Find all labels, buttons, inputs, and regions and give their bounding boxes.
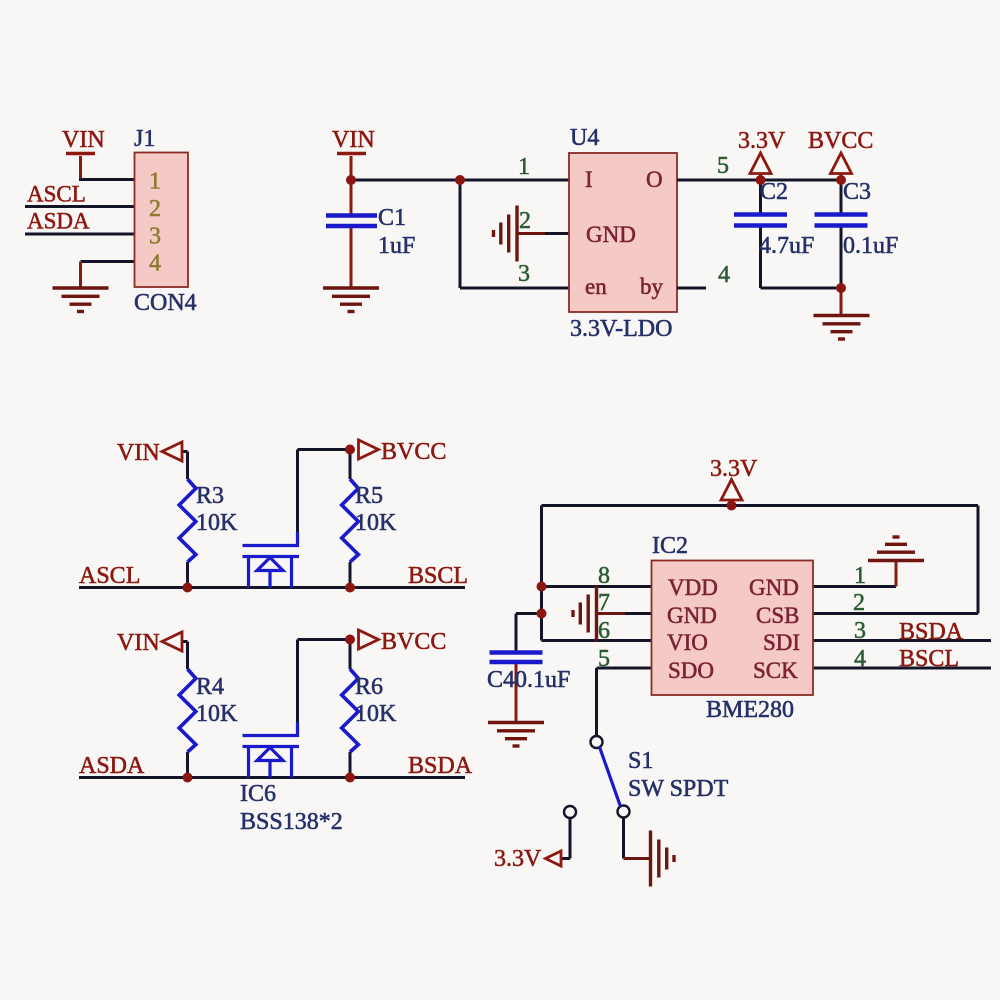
svg-text:VIN: VIN: [117, 630, 160, 656]
svg-text:7: 7: [598, 590, 610, 616]
svg-text:VIN: VIN: [62, 127, 105, 153]
svg-text:3.3V-LDO: 3.3V-LDO: [570, 316, 672, 342]
svg-text:8: 8: [598, 563, 610, 589]
svg-text:BSCL: BSCL: [408, 563, 468, 589]
svg-text:SDO: SDO: [668, 658, 714, 683]
svg-text:R6: R6: [355, 674, 383, 700]
svg-text:R3: R3: [196, 483, 224, 509]
svg-text:ASCL: ASCL: [27, 182, 86, 207]
svg-text:BVCC: BVCC: [381, 439, 446, 465]
svg-text:3.3V: 3.3V: [738, 128, 786, 154]
svg-text:CON4: CON4: [134, 290, 197, 316]
svg-text:0.1uF: 0.1uF: [843, 233, 898, 259]
svg-text:3.3V: 3.3V: [710, 456, 758, 482]
svg-text:IC2: IC2: [652, 533, 688, 559]
svg-text:C3: C3: [843, 179, 871, 205]
svg-text:3.3V: 3.3V: [494, 846, 542, 872]
svg-text:3: 3: [854, 618, 866, 644]
svg-text:BSS138*2: BSS138*2: [240, 809, 343, 835]
svg-text:1uF: 1uF: [378, 233, 415, 259]
svg-text:3: 3: [149, 224, 161, 250]
svg-text:by: by: [640, 274, 664, 299]
svg-text:2: 2: [519, 208, 531, 234]
svg-text:5: 5: [717, 153, 729, 179]
svg-text:SW SPDT: SW SPDT: [628, 776, 729, 802]
svg-text:10K: 10K: [355, 510, 397, 536]
svg-text:3: 3: [518, 261, 530, 287]
svg-text:5: 5: [598, 646, 610, 672]
svg-text:I: I: [585, 167, 593, 192]
svg-text:2: 2: [149, 196, 161, 222]
svg-text:IC6: IC6: [240, 781, 276, 807]
svg-text:ASDA: ASDA: [79, 753, 145, 779]
svg-text:2: 2: [853, 590, 865, 616]
svg-text:4: 4: [718, 262, 730, 288]
svg-text:C40.1uF: C40.1uF: [487, 667, 570, 693]
svg-text:O: O: [646, 167, 663, 192]
svg-text:BME280: BME280: [706, 697, 794, 723]
svg-text:VIN: VIN: [332, 127, 375, 153]
svg-text:10K: 10K: [196, 510, 238, 536]
svg-text:1: 1: [149, 169, 161, 195]
svg-text:10K: 10K: [355, 701, 397, 727]
svg-text:4.7uF: 4.7uF: [759, 233, 814, 259]
svg-text:BSCL: BSCL: [899, 646, 959, 672]
svg-text:4: 4: [149, 251, 161, 277]
svg-text:SDI: SDI: [763, 630, 800, 655]
svg-text:1: 1: [518, 154, 530, 180]
svg-text:SCK: SCK: [753, 658, 798, 683]
svg-text:BSDA: BSDA: [408, 753, 473, 779]
svg-text:C1: C1: [378, 205, 406, 231]
svg-text:GND: GND: [667, 603, 717, 628]
svg-text:R4: R4: [196, 674, 224, 700]
svg-text:BSDA: BSDA: [899, 619, 964, 645]
svg-text:S1: S1: [628, 748, 653, 774]
svg-text:VIO: VIO: [667, 630, 708, 655]
svg-text:10K: 10K: [196, 701, 238, 727]
svg-text:BVCC: BVCC: [808, 128, 873, 154]
svg-text:ASCL: ASCL: [79, 563, 140, 589]
svg-text:ASDA: ASDA: [27, 209, 90, 234]
svg-text:R5: R5: [355, 483, 383, 509]
svg-text:GND: GND: [586, 222, 636, 247]
svg-text:VDD: VDD: [668, 575, 718, 600]
svg-text:6: 6: [598, 618, 610, 644]
svg-text:en: en: [585, 274, 607, 299]
svg-text:VIN: VIN: [117, 440, 160, 466]
svg-text:J1: J1: [134, 126, 155, 152]
svg-text:BVCC: BVCC: [381, 629, 446, 655]
svg-text:4: 4: [854, 646, 866, 672]
svg-text:CSB: CSB: [756, 603, 799, 628]
svg-text:GND: GND: [749, 575, 799, 600]
svg-text:U4: U4: [570, 125, 599, 151]
svg-text:1: 1: [854, 563, 866, 589]
